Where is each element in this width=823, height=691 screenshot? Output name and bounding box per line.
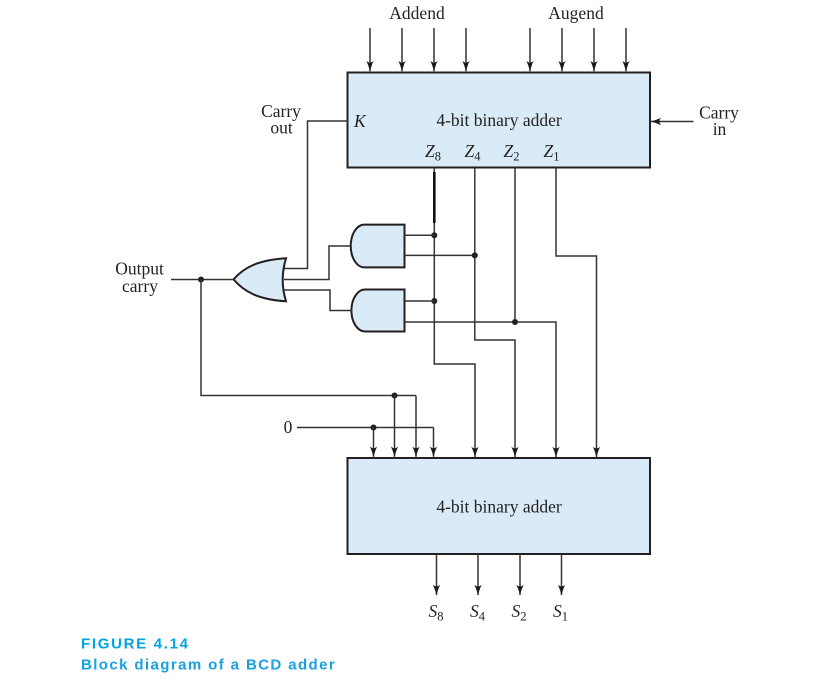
wire augend input arrow 2 bbox=[561, 28, 563, 71]
wire carry to U2 input weight4 arrow bbox=[394, 396, 396, 457]
wire 0 to U2 input weight1 arrow bbox=[433, 428, 435, 446]
svg-text:S2: S2 bbox=[512, 601, 527, 624]
wire Z2 net bbox=[515, 168, 556, 458]
wire K to OR gate top input bbox=[284, 121, 348, 269]
svg-text:S1: S1 bbox=[553, 601, 568, 624]
wire addend input arrow 4 bbox=[465, 28, 467, 71]
wire G1 bottom input stub bbox=[405, 254, 475, 256]
svg-text:S8: S8 bbox=[429, 601, 444, 624]
wire output carry from OR tip bbox=[171, 279, 234, 281]
wire 0 constant line bbox=[297, 427, 434, 429]
or-gate G3 bbox=[234, 258, 287, 301]
svg-text:out: out bbox=[270, 118, 293, 138]
wire augend input arrow 3 bbox=[593, 28, 595, 71]
adder U2 bottom 4-bit binary adder box bbox=[348, 458, 651, 554]
svg-text:4-bit binary adder: 4-bit binary adder bbox=[436, 110, 562, 130]
svg-text:4-bit binary adder: 4-bit binary adder bbox=[436, 497, 562, 517]
label Carry in bbox=[699, 103, 739, 140]
svg-text:in: in bbox=[713, 119, 727, 139]
wire Z4 net bbox=[475, 168, 515, 458]
node output carry junction bbox=[198, 277, 204, 283]
node Z8 to G1 junction bbox=[431, 232, 437, 238]
adder U1 top 4-bit binary adder box bbox=[348, 73, 651, 168]
node junction on carry correction line bbox=[392, 393, 398, 399]
wire G1 top input stub bbox=[405, 234, 435, 236]
svg-text:FIGURE 4.14: FIGURE 4.14 bbox=[81, 636, 190, 653]
wire Z8 net bbox=[434, 168, 475, 458]
svg-text:S4: S4 bbox=[470, 601, 486, 624]
wire augend input arrow 4 bbox=[625, 28, 627, 71]
wire augend input arrow 1 bbox=[529, 28, 531, 71]
svg-text:Block diagram of a BCD adder: Block diagram of a BCD adder bbox=[81, 657, 336, 674]
wire carry to U2 input weight2 arrow bbox=[415, 396, 417, 457]
wire S4 output arrow bbox=[477, 554, 479, 595]
svg-text:carry: carry bbox=[122, 276, 158, 296]
wire S1 output arrow bbox=[561, 554, 563, 595]
svg-text:Augend: Augend bbox=[548, 3, 604, 23]
svg-text:0: 0 bbox=[284, 417, 293, 437]
and-gate G2 bbox=[351, 290, 404, 332]
wire G2 top input stub bbox=[405, 300, 435, 302]
label Output carry bbox=[115, 259, 164, 297]
node Z4 to G1 junction bbox=[472, 252, 478, 258]
node junction on 0 line bbox=[371, 425, 377, 431]
wire addend input arrow 1 bbox=[369, 28, 371, 71]
svg-text:Addend: Addend bbox=[389, 3, 445, 23]
wire G2 output to OR bottom input bbox=[284, 290, 352, 311]
wire addend input arrow 2 bbox=[401, 28, 403, 71]
node Z8 to G2 junction bbox=[431, 298, 437, 304]
wire 0 to U2 input weight8 arrow bbox=[373, 428, 375, 457]
and-gate G1 bbox=[351, 225, 405, 268]
wire S2 output arrow bbox=[519, 554, 521, 595]
wire output carry down and right bbox=[201, 280, 416, 396]
wire G2 bottom input stub bbox=[405, 321, 516, 323]
wire G1 output to OR middle input bbox=[284, 246, 351, 280]
wire carry in arrow bbox=[651, 121, 694, 123]
label Carry out bbox=[261, 101, 301, 138]
wire Z1 net bbox=[556, 168, 597, 458]
wire S8 output arrow bbox=[436, 554, 438, 595]
node Z2 to G2 junction bbox=[512, 319, 518, 325]
wire Z8 thick segment bbox=[433, 172, 436, 223]
wire addend input arrow 3 bbox=[433, 28, 435, 71]
svg-text:K: K bbox=[353, 111, 367, 131]
